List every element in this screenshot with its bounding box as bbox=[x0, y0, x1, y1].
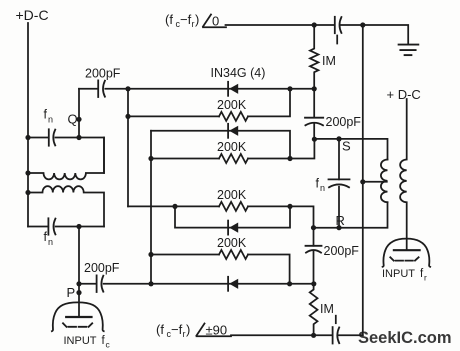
svg-text:IN34G (4): IN34G (4) bbox=[211, 66, 266, 80]
node S-junction bbox=[312, 137, 317, 142]
node row1-x290 bbox=[287, 86, 292, 91]
wire top bbox=[226, 25, 409, 45]
svg-text:n: n bbox=[48, 115, 53, 125]
svg-text:P: P bbox=[67, 285, 76, 300]
watermark SeekIC.com bbox=[358, 329, 452, 347]
svg-text:200K: 200K bbox=[217, 188, 247, 202]
capacitor C7 bottom wire bbox=[332, 327, 334, 343]
label IN34G (4) bbox=[211, 66, 266, 80]
label S bbox=[342, 139, 351, 154]
resistor R6 1M bottom bbox=[310, 284, 318, 336]
svg-text:200pF: 200pF bbox=[326, 115, 362, 129]
svg-text:): ) bbox=[195, 12, 199, 27]
node row5-x290 bbox=[287, 204, 292, 209]
wire row8 bbox=[79, 283, 314, 285]
svg-text:f: f bbox=[44, 108, 48, 122]
wire row2 bbox=[128, 89, 290, 117]
transformer T2 primary coil bbox=[400, 99, 407, 250]
capacitor C5 fn right tank bbox=[338, 139, 340, 228]
wire row7 bbox=[151, 255, 290, 284]
svg-text:f: f bbox=[316, 177, 320, 191]
wire right rail bbox=[362, 25, 364, 335]
label (fc-fr) angle 0 bbox=[165, 12, 199, 29]
node rail-L1 bbox=[25, 170, 30, 175]
inductor L2 bbox=[28, 186, 104, 226]
tube V1 envelope bbox=[52, 302, 104, 331]
resistor R4 200K bbox=[219, 250, 248, 259]
diode D4 bbox=[228, 277, 238, 291]
svg-text:+D-C: +D-C bbox=[16, 7, 49, 23]
capacitor C2 200pF row8 bbox=[96, 275, 98, 292]
node R-junction bbox=[311, 225, 316, 230]
svg-text:200K: 200K bbox=[217, 140, 247, 154]
node R bbox=[336, 225, 341, 230]
node row5-x175 bbox=[172, 204, 177, 209]
label + D-C right bbox=[387, 87, 421, 102]
label 200K R1 bbox=[217, 98, 247, 112]
angle slash 0 bbox=[203, 15, 211, 27]
svg-text:0: 0 bbox=[212, 14, 219, 29]
tube V1 plate bbox=[66, 316, 91, 318]
capacitor fn bottom tank bbox=[47, 218, 49, 234]
resistor R2 200K bbox=[219, 154, 248, 163]
wire crossbar line2 bbox=[150, 131, 152, 284]
tube V1 grid dashed bbox=[63, 323, 92, 327]
tick I above C7 bbox=[335, 316, 337, 324]
tube V2 plate bbox=[394, 249, 420, 251]
svg-text:200pF: 200pF bbox=[84, 261, 120, 275]
svg-text:±90: ±90 bbox=[206, 323, 228, 338]
node topwire-rail bbox=[360, 22, 365, 27]
node line2-row8 bbox=[148, 281, 153, 286]
transformer T2 secondary coil bbox=[381, 160, 388, 203]
node row8-chain bbox=[311, 281, 316, 286]
svg-text:r: r bbox=[424, 273, 427, 283]
label 1M bottom bbox=[320, 302, 334, 316]
svg-text:IM: IM bbox=[322, 54, 336, 68]
svg-text:R: R bbox=[336, 213, 345, 228]
wire Q vertical bbox=[78, 89, 80, 138]
node Q bbox=[76, 117, 81, 122]
label 1M top bbox=[322, 54, 336, 68]
label 200pF right upper bbox=[326, 115, 362, 129]
label 200K R2 bbox=[217, 140, 247, 154]
wire S row bbox=[314, 139, 387, 160]
capacitor C1 200pF top left bbox=[97, 80, 99, 97]
svg-text:−f: −f bbox=[171, 322, 183, 337]
node line2-row7 bbox=[148, 252, 153, 257]
tube V2 envelope bbox=[383, 239, 431, 267]
node P-tank junction bbox=[76, 224, 81, 229]
diode D1 bbox=[228, 82, 238, 96]
svg-text:SeekIC.com: SeekIC.com bbox=[358, 329, 452, 347]
node row8 left bbox=[76, 281, 81, 286]
svg-text:(f: (f bbox=[165, 12, 173, 27]
svg-text:−f: −f bbox=[180, 12, 192, 27]
node Q-tank junction bbox=[76, 135, 81, 140]
node row4-x290 bbox=[287, 156, 292, 161]
angle slash 90 bbox=[197, 324, 205, 336]
capacitor fn top tank bbox=[48, 129, 50, 145]
svg-text:f: f bbox=[44, 230, 48, 244]
label +D-C left supply bbox=[16, 7, 49, 23]
node topwire-1M bbox=[312, 22, 317, 27]
node rail-tap bbox=[360, 179, 365, 184]
wire crossbar line1 bbox=[127, 89, 129, 207]
svg-text:n: n bbox=[320, 183, 325, 193]
label P bbox=[67, 285, 76, 300]
label 200pF row8 bbox=[84, 261, 120, 275]
label INPUT fc bbox=[64, 335, 111, 350]
wire row1 bbox=[79, 88, 314, 90]
label 200K R4 bbox=[217, 236, 247, 250]
node row8-x290 bbox=[287, 281, 292, 286]
tick I below C3 bbox=[336, 36, 338, 44]
svg-text:INPUT: INPUT bbox=[64, 335, 97, 347]
resistor R5 1M top bbox=[310, 25, 318, 89]
label 200pF top left bbox=[85, 67, 121, 81]
node S bbox=[336, 136, 341, 141]
wire bottom bbox=[231, 334, 363, 336]
capacitor C4 200pF right upper bbox=[313, 89, 315, 139]
svg-text:200K: 200K bbox=[217, 98, 247, 112]
wire R row bbox=[314, 202, 388, 227]
wire row5 bbox=[128, 206, 314, 227]
label 200pF right lower bbox=[324, 244, 360, 258]
ground bbox=[399, 45, 419, 56]
svg-text:n: n bbox=[48, 237, 53, 247]
node row1-line1 bbox=[125, 86, 130, 91]
wire row6 bbox=[175, 206, 290, 227]
wire row3 bbox=[151, 131, 290, 159]
node line1-row2 bbox=[125, 114, 130, 119]
node line2-row4 bbox=[148, 156, 153, 161]
angle underline 90 bbox=[197, 335, 232, 337]
label fn bottom tank bbox=[44, 230, 54, 247]
svg-text:+ D-C: + D-C bbox=[387, 87, 421, 102]
resistor R3 200K bbox=[219, 202, 248, 211]
label fn right tank bbox=[316, 177, 326, 194]
wire top tank cap row bbox=[28, 138, 104, 174]
svg-text:(f: (f bbox=[156, 322, 164, 337]
svg-text:200pF: 200pF bbox=[324, 244, 360, 258]
diode D3 bbox=[228, 221, 238, 235]
wire bottom tank cap row bbox=[28, 226, 104, 228]
label 200K R3 bbox=[217, 188, 247, 202]
svg-text:c: c bbox=[106, 340, 111, 350]
label INPUT fr bbox=[382, 268, 427, 283]
node rail-L2 bbox=[25, 190, 30, 195]
svg-text:Q: Q bbox=[68, 112, 78, 127]
node row1-chain bbox=[312, 86, 317, 91]
svg-text:200K: 200K bbox=[217, 236, 247, 250]
capacitor C3 top wire bbox=[334, 17, 336, 33]
tube V2 grid dashed bbox=[390, 257, 418, 260]
svg-text:S: S bbox=[342, 139, 351, 154]
label Q bbox=[68, 112, 78, 127]
svg-text:200pF: 200pF bbox=[85, 67, 121, 81]
wire row4 bbox=[151, 139, 314, 158]
wire left rail bbox=[27, 23, 29, 227]
node bottomwire-1M bbox=[311, 333, 316, 338]
svg-text:IM: IM bbox=[320, 302, 334, 316]
wire P vertical bbox=[78, 227, 80, 318]
svg-text:INPUT: INPUT bbox=[382, 268, 415, 280]
wire center tap bbox=[363, 181, 387, 183]
node rail-top-tank bbox=[25, 135, 30, 140]
label fn top tank bbox=[44, 108, 54, 125]
diode D2 bbox=[228, 124, 238, 138]
label (fc-fr) angle +-90 bbox=[156, 322, 190, 339]
svg-text:): ) bbox=[186, 322, 190, 337]
node P bbox=[76, 290, 81, 295]
capacitor C6 200pF right lower bbox=[313, 228, 315, 284]
inductor L1 bbox=[28, 138, 104, 180]
label R bbox=[336, 213, 345, 228]
angle underline 0 bbox=[203, 26, 226, 28]
resistor R1 200K bbox=[219, 112, 248, 121]
